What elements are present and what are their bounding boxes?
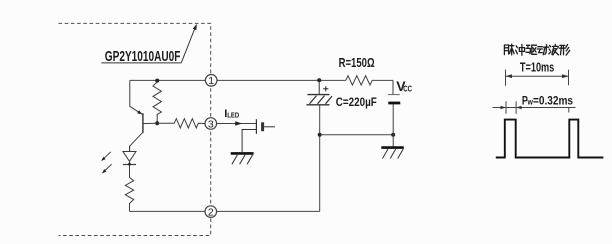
- label Vcc: [396, 78, 412, 94]
- LED D1: [123, 146, 136, 177]
- resistor internal vertical: [153, 82, 161, 123]
- wire top rail: [130, 79, 346, 81]
- capacitor C=220uF: [307, 80, 333, 104]
- resistor base horizontal: [157, 119, 205, 128]
- char bo1: [549, 44, 559, 55]
- svg-text:LED: LED: [227, 113, 239, 120]
- svg-text:T=10ms: T=10ms: [520, 59, 554, 74]
- current arrow ILED: [235, 121, 242, 126]
- resistor LED series: [125, 178, 133, 212]
- waveform title pulse drive (Chinese glyphs drawn): [504, 44, 569, 55]
- svg-text:R=150Ω: R=150Ω: [339, 56, 375, 70]
- label GP2Y1010AU0F: [101, 24, 197, 65]
- resistor R=150: [346, 76, 372, 85]
- char dong4: [537, 45, 548, 55]
- char qu1: [526, 45, 537, 54]
- ground left: [231, 153, 254, 164]
- supply Vcc: [388, 80, 401, 147]
- driver device pin3: [242, 119, 275, 152]
- pin 3: [205, 118, 217, 131]
- node mid rail right: [391, 133, 395, 137]
- transistor Q1: [130, 80, 158, 151]
- node top cap junction: [317, 78, 321, 82]
- svg-text:2: 2: [208, 207, 214, 219]
- char chong1: [516, 44, 525, 55]
- svg-text:CC: CC: [403, 84, 412, 93]
- svg-text:3: 3: [208, 118, 214, 130]
- dimension T period: [506, 70, 569, 86]
- label ILED: [224, 108, 239, 120]
- label Pw=0.32ms: [522, 93, 573, 107]
- capacitor plus sign: [323, 86, 328, 91]
- dimension Pw width: [493, 101, 576, 114]
- pin 2: [205, 206, 217, 219]
- light emission arrows: [101, 152, 111, 174]
- svg-text:1: 1: [208, 75, 214, 87]
- ground right: [381, 148, 404, 159]
- svg-text:=0.32ms: =0.32ms: [533, 93, 573, 107]
- svg-text:C=220µF: C=220µF: [336, 95, 377, 109]
- wire riser pin2 to mid rail: [319, 105, 321, 211]
- sensor dashed outline: [59, 23, 211, 235]
- node top-left junction: [155, 79, 159, 83]
- char mai4: [504, 44, 514, 55]
- wire pin3 to driver: [216, 123, 256, 125]
- node mid rail left: [318, 133, 322, 137]
- node base junction: [155, 121, 159, 125]
- pin 1: [205, 75, 217, 88]
- wire top rail right: [372, 79, 393, 81]
- wire mid rail: [320, 134, 394, 136]
- pulse waveform: [496, 120, 604, 158]
- char xing2: [559, 45, 569, 56]
- wire bottom rail: [130, 210, 320, 212]
